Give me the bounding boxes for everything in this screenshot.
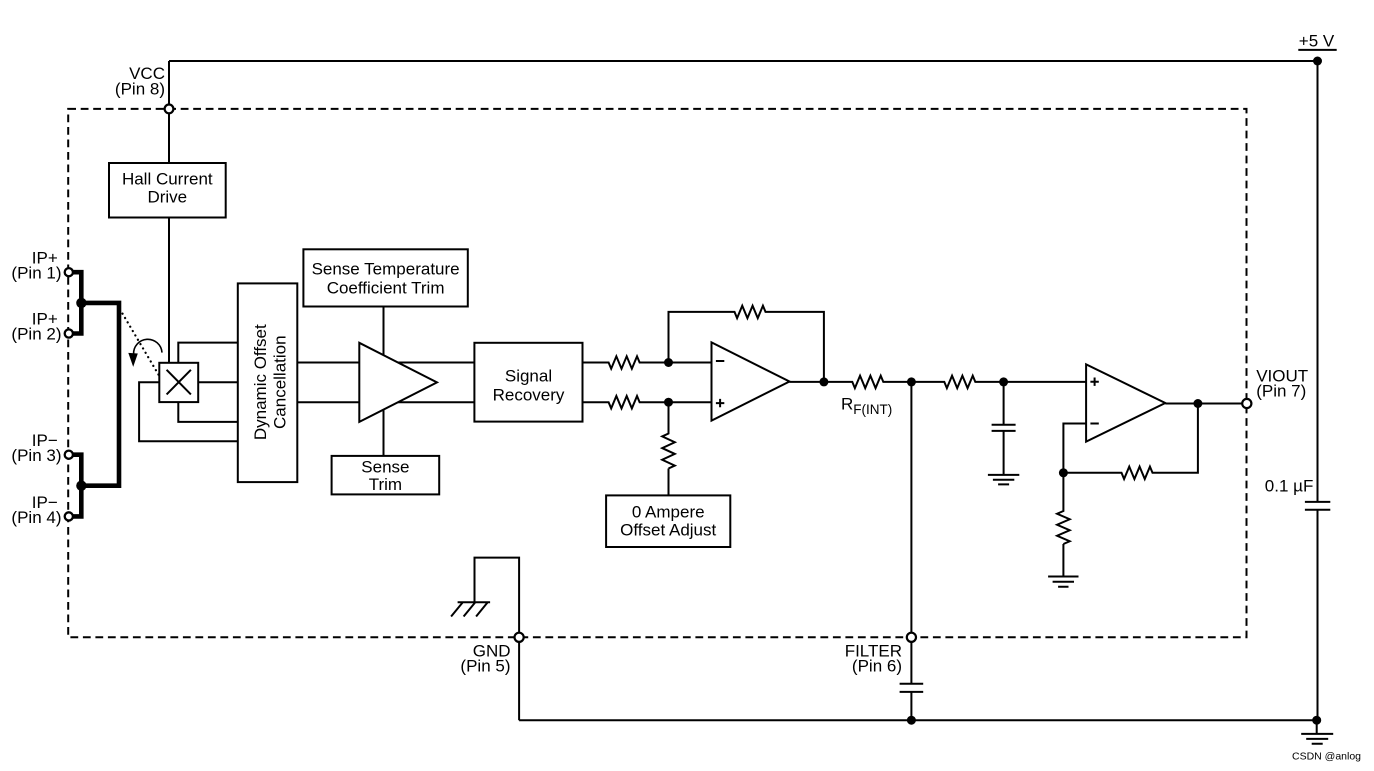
svg-text:(Pin 8): (Pin 8) xyxy=(115,79,165,98)
wire VCC pin to top rail xyxy=(168,61,170,163)
hall element (X sensor) xyxy=(159,363,198,402)
wire right +5V rail upper xyxy=(1317,61,1319,501)
node U2 feedback junction xyxy=(1059,468,1068,477)
op-amp U2 xyxy=(1086,364,1165,441)
node lower input junction xyxy=(664,398,673,407)
svg-text:(Pin 1): (Pin 1) xyxy=(11,264,61,283)
node U2 output junction xyxy=(1193,399,1202,408)
svg-text:Dynamic Offset: Dynamic Offset xyxy=(251,324,270,440)
ground earth C3 xyxy=(988,475,1019,485)
svg-text:(Pin 5): (Pin 5) xyxy=(460,656,510,675)
pin IP+ (Pin 1) terminal xyxy=(65,268,73,276)
svg-text:Offset Adjust: Offset Adjust xyxy=(620,520,716,539)
svg-text:Recovery: Recovery xyxy=(493,385,565,404)
svg-text:(Pin 4): (Pin 4) xyxy=(11,508,61,527)
node IP+ junction xyxy=(76,298,86,308)
svg-text:Coefficient Trim: Coefficient Trim xyxy=(327,278,445,297)
svg-text:Hall Current: Hall Current xyxy=(122,170,213,189)
svg-text:+5 V: +5 V xyxy=(1299,32,1335,51)
wire bottom ground rail xyxy=(519,719,1317,721)
capacitor filter plates xyxy=(900,684,924,692)
node C3 junction xyxy=(999,377,1008,386)
ground earth R6 xyxy=(1048,577,1078,587)
wire GND pin to bottom rail xyxy=(518,637,520,720)
capacitor 0.1uF plates xyxy=(1305,502,1330,510)
wire U1 feedback loop with resistor R3 xyxy=(669,306,824,382)
IC boundary dashed box xyxy=(68,109,1246,637)
wire U1 output to U2 input with RF(INT) and R4 xyxy=(790,376,1087,388)
wire hall element left to DOC xyxy=(139,382,238,441)
wire lower signal path with resistor R2 xyxy=(297,396,711,408)
node upper input junction xyxy=(664,358,673,367)
svg-text:Sense: Sense xyxy=(361,457,409,476)
node filter cap to ground rail xyxy=(907,716,916,725)
wire U2 feedback with resistor R5 xyxy=(1063,404,1198,480)
block Dynamic Offset Cancellation xyxy=(238,283,297,482)
svg-text:Cancellation: Cancellation xyxy=(271,335,290,429)
ground earth bottom right xyxy=(1301,720,1333,744)
block Sense Trim xyxy=(332,456,440,495)
wire upper signal path with resistor R1 xyxy=(297,356,711,368)
wire hall element right to DOC xyxy=(198,381,238,383)
wire thick primary conductor IP+ to IP- xyxy=(69,272,119,516)
svg-text:Signal: Signal xyxy=(505,366,552,385)
wire GND pin riser and chassis xyxy=(475,558,520,638)
pin GND (Pin 5) xyxy=(515,633,524,642)
wire FILTER branch xyxy=(910,382,912,684)
svg-text:(Pin 2): (Pin 2) xyxy=(11,325,61,344)
block Sense Temperature Coefficient Trim xyxy=(303,249,467,306)
op-amp U1 xyxy=(712,342,790,420)
resistor to 0 Ampere Offset Adjust xyxy=(662,402,675,495)
pin IP+ (Pin 2) terminal xyxy=(65,329,73,337)
pin IP- (Pin 4) terminal xyxy=(65,512,73,520)
svg-text:0 Ampere: 0 Ampere xyxy=(632,502,705,521)
wire hall element top to DOC xyxy=(178,343,238,363)
flux dotted arrow xyxy=(123,314,159,375)
capacitor C3 branch xyxy=(1003,382,1005,425)
wire U2 output to VIOUT xyxy=(1165,403,1247,405)
svg-text:CSDN @anlog: CSDN @anlog xyxy=(1292,751,1361,763)
node IP- junction xyxy=(76,481,86,491)
wire right rail lower xyxy=(1317,510,1319,721)
block Signal Recovery xyxy=(474,343,582,422)
svg-text:Trim: Trim xyxy=(369,475,402,494)
rotation arc arrow xyxy=(134,339,162,354)
node +5V junction xyxy=(1313,57,1322,66)
chassis ground symbol xyxy=(451,602,490,616)
node U1 output junction xyxy=(819,377,828,386)
svg-text:Drive: Drive xyxy=(147,188,187,207)
pin VIOUT (Pin 7) xyxy=(1242,399,1251,408)
amplifier A1 xyxy=(359,343,437,422)
wire top +5V rail xyxy=(169,60,1318,62)
node FILTER junction xyxy=(907,377,916,386)
wire hall element bottom to DOC xyxy=(178,402,238,422)
block Hall Current Drive xyxy=(109,163,226,218)
resistor R6 to ground xyxy=(1057,473,1070,577)
pin FILTER (Pin 6) xyxy=(907,633,916,642)
svg-text:0.1 µF: 0.1 µF xyxy=(1265,476,1314,495)
svg-text:(Pin 7): (Pin 7) xyxy=(1256,381,1306,400)
wire U2 inverting input xyxy=(1063,424,1086,473)
node bottom-right junction xyxy=(1312,716,1321,725)
svg-text:Sense Temperature: Sense Temperature xyxy=(312,259,460,278)
wire Hall Current Drive to hall element xyxy=(168,218,170,363)
pin VCC (Pin 8) xyxy=(165,105,174,114)
svg-text:(Pin 3): (Pin 3) xyxy=(11,446,61,465)
wire sense trim vertical xyxy=(383,307,385,456)
pin IP- (Pin 3) terminal xyxy=(65,451,73,459)
svg-text:(Pin 6): (Pin 6) xyxy=(852,656,902,675)
block 0 Ampere Offset Adjust xyxy=(606,495,730,547)
